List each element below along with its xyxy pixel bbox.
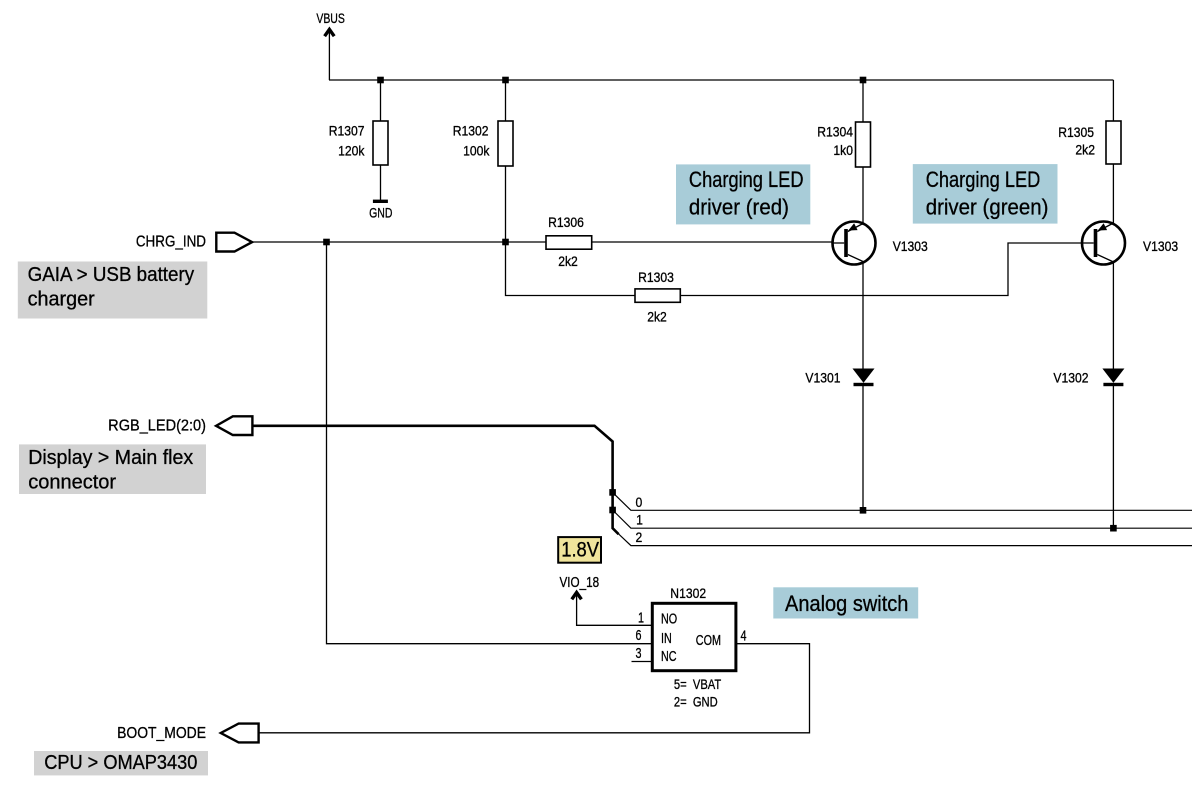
ground symbol GND (373, 200, 388, 203)
svg-text:R1305: R1305 (1058, 125, 1094, 141)
resistor R1302 (498, 121, 513, 166)
svg-text:VIO_18: VIO_18 (560, 574, 600, 591)
svg-text:1k0: 1k0 (833, 143, 853, 159)
svg-text:R1303: R1303 (638, 270, 674, 286)
diode V1301 (854, 369, 874, 386)
svg-text:Analog switch: Analog switch (785, 592, 908, 616)
svg-text:1.8V: 1.8V (561, 539, 600, 562)
svg-text:VBUS: VBUS (316, 11, 345, 27)
svg-text:charger: charger (28, 288, 95, 310)
wire CHRG_IND column down to IN pin (327, 242, 653, 644)
wire rail to R1307 (380, 80, 382, 121)
wire R1302 down to CHRG_IND node (505, 166, 507, 242)
junction on rail at R1307 (377, 77, 384, 84)
branch bit 2 (616, 532, 1192, 546)
annotation CPU > OMAP3430 (34, 751, 208, 775)
svg-text:V1303: V1303 (1143, 239, 1178, 255)
svg-text:2k2: 2k2 (647, 309, 667, 325)
junction V1302 line 1 (1110, 525, 1117, 532)
wire V1301 to line 0 (862, 386, 864, 510)
annotation Display > Main flex connector (19, 444, 206, 494)
svg-text:NO: NO (661, 610, 677, 627)
wire V1302 to line 1 (1112, 386, 1114, 528)
junction on rail at R1302 (502, 77, 509, 84)
wire R1307 to ground (380, 165, 382, 200)
svg-text:Charging LED: Charging LED (689, 168, 804, 192)
svg-text:driver (red): driver (red) (689, 195, 789, 220)
wire red collector down (862, 261, 864, 369)
wire R1304 to transistor emitter (862, 167, 864, 225)
diode V1302 (1103, 369, 1123, 386)
svg-text:GAIA > USB battery: GAIA > USB battery (28, 263, 195, 286)
wire VBUS top rail (329, 79, 1113, 81)
svg-text:120k: 120k (338, 143, 365, 159)
svg-text:IN: IN (661, 629, 672, 646)
junction V1301 line 0 (860, 507, 867, 514)
svg-text:1: 1 (636, 512, 643, 528)
annotation Charging LED driver (red) (676, 164, 810, 224)
annotation Analog switch (773, 587, 918, 618)
transistor V1303 (green driver) (1082, 222, 1125, 265)
svg-text:V1301: V1301 (805, 370, 840, 386)
svg-text:100k: 100k (463, 143, 490, 159)
svg-text:0: 0 (636, 495, 643, 511)
annotation GAIA > USB battery charger (18, 262, 208, 319)
junction CHRG_IND column (323, 239, 330, 246)
svg-text:N1302: N1302 (670, 586, 706, 602)
transistor V1303 (red driver) (833, 222, 876, 265)
pin stub NC (632, 661, 653, 663)
svg-text:4: 4 (740, 627, 746, 644)
branch bit 1 (613, 510, 1192, 528)
svg-text:5= VBAT: 5= VBAT (674, 677, 722, 692)
wire R1306 to V1303 base (592, 241, 832, 243)
wire rail to R1302 (505, 80, 507, 121)
svg-text:RGB_LED(2:0): RGB_LED(2:0) (108, 417, 206, 435)
svg-text:R1306: R1306 (548, 214, 584, 230)
power arrow VIO_18 (572, 593, 653, 626)
wire rail to R1304 (862, 80, 864, 122)
svg-text:CHRG_IND: CHRG_IND (136, 233, 206, 250)
power arrow VBUS (325, 29, 335, 80)
junction at R1302 bottom (502, 239, 509, 246)
svg-text:Charging LED: Charging LED (926, 168, 1041, 192)
analog switch N1302 box (652, 603, 736, 670)
wire green collector down (1112, 261, 1114, 369)
svg-text:R1302: R1302 (453, 123, 489, 139)
svg-text:Display > Main flex: Display > Main flex (28, 447, 193, 469)
svg-text:COM: COM (696, 631, 721, 648)
svg-text:2k2: 2k2 (558, 254, 578, 270)
svg-text:GND: GND (369, 205, 392, 221)
wire node down to R1303 (506, 242, 636, 296)
junction on rail at R1304 (860, 77, 867, 84)
wire R1305 to transistor emitter (1112, 164, 1114, 225)
svg-text:connector: connector (28, 471, 116, 493)
resistor R1307 (373, 121, 388, 165)
branch bit 0 (613, 492, 1192, 510)
svg-text:2= GND: 2= GND (674, 694, 718, 709)
wire CHRG_IND to R1306 (252, 241, 546, 243)
svg-text:R1307: R1307 (329, 123, 365, 139)
svg-text:driver (green): driver (green) (926, 195, 1049, 220)
wire COM to BOOT_MODE (259, 644, 810, 733)
bus RGB_LED (252, 426, 618, 534)
svg-text:BOOT_MODE: BOOT_MODE (117, 724, 206, 742)
svg-text:1: 1 (638, 609, 644, 626)
svg-text:V1302: V1302 (1053, 370, 1088, 386)
svg-text:CPU > OMAP3430: CPU > OMAP3430 (44, 752, 197, 774)
wire R1303 to green transistor base (680, 243, 1082, 296)
resistor R1304 (856, 122, 871, 167)
svg-text:3: 3 (635, 644, 641, 661)
svg-text:2: 2 (636, 529, 643, 545)
svg-text:6: 6 (635, 626, 641, 643)
annotation Charging LED driver (green) (913, 164, 1058, 224)
svg-text:R1304: R1304 (817, 124, 853, 140)
junction bus bit0 (609, 489, 616, 496)
resistor R1306 (546, 236, 592, 249)
svg-text:V1303: V1303 (893, 239, 928, 255)
svg-text:2k2: 2k2 (1075, 142, 1095, 158)
wire rail corner down to R1305 (1112, 80, 1114, 121)
resistor R1305 (1106, 121, 1121, 164)
power label 1.8V (558, 537, 601, 563)
resistor R1303 (635, 289, 680, 302)
junction bus bit1 (609, 507, 616, 514)
svg-text:NC: NC (661, 647, 677, 664)
